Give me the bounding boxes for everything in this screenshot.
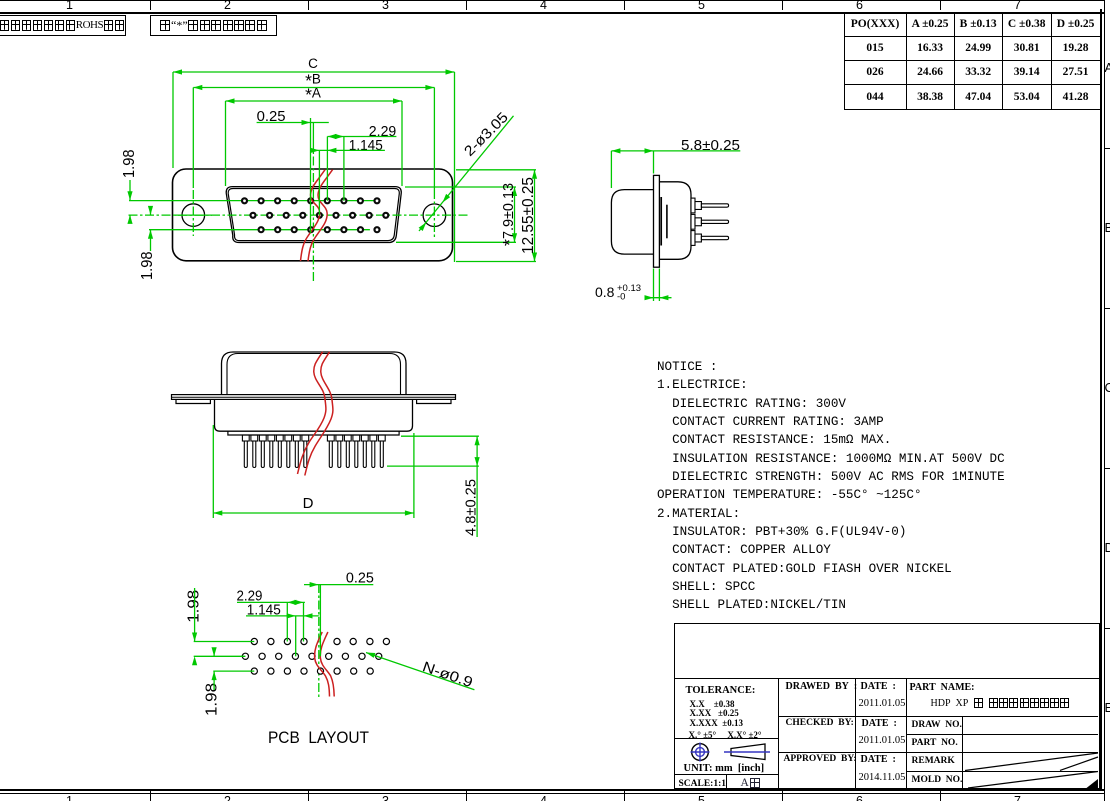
bottom frame line thin xyxy=(0,793,1104,794)
svg-text:1.145: 1.145 xyxy=(349,138,383,154)
right ruler ticks xyxy=(1104,148,1110,149)
DRAWED BY xyxy=(786,681,858,692)
top frame line thick xyxy=(0,12,1104,14)
dimension 7.9 xyxy=(405,186,516,188)
row line checked/approved xyxy=(778,752,1098,753)
front view right mounting hole xyxy=(423,204,446,227)
dimension 0.8 xyxy=(646,297,671,299)
front view D-shell outer xyxy=(226,187,401,243)
right ruler letters xyxy=(1105,60,1110,75)
DRAW NO. xyxy=(912,720,962,730)
break line pcb xyxy=(315,632,330,697)
top row extension line xyxy=(129,200,377,202)
svg-text:-0: -0 xyxy=(617,292,625,303)
side view insulator inner edge 1 xyxy=(660,197,662,246)
leader 2-diam3.05 xyxy=(419,116,514,231)
rear view flange tab left xyxy=(176,399,210,403)
dimension 5.8 xyxy=(611,150,740,152)
TOLERANCE text xyxy=(686,685,756,696)
projection symbol xyxy=(687,738,771,768)
top ruler ticks xyxy=(150,0,151,10)
side view insulator block xyxy=(659,182,691,259)
scale row line xyxy=(675,774,779,775)
svg-text:*7.9±0.13: *7.9±0.13 xyxy=(500,183,520,246)
dimension 4.8 xyxy=(401,435,479,437)
draw/part line xyxy=(906,734,1098,735)
svg-text:1.98: 1.98 xyxy=(204,683,221,716)
svg-text:1.98: 1.98 xyxy=(139,251,156,280)
side view insulator inner edge 2 xyxy=(666,205,668,239)
dimension 12.55 xyxy=(456,169,536,171)
vertical centerline front xyxy=(312,140,314,283)
front view left mounting hole xyxy=(182,204,205,227)
rear view insulator step xyxy=(228,431,399,435)
no col divider xyxy=(962,716,963,788)
part name value xyxy=(931,698,1070,709)
side view rear shell xyxy=(611,190,653,255)
UNIT text xyxy=(684,763,765,774)
side view pins xyxy=(691,198,729,245)
front view D-shell inner xyxy=(228,189,399,241)
A ban xyxy=(741,777,761,789)
front view contact holes grid xyxy=(242,198,388,232)
pcb leader N-0.9 xyxy=(366,653,474,690)
bottom ruler numbers xyxy=(66,794,73,801)
PART NAME xyxy=(910,682,975,693)
symbols divider xyxy=(675,738,779,739)
dimension A xyxy=(226,100,403,102)
left col right edge xyxy=(778,678,779,788)
svg-text:12.55±0.25: 12.55±0.25 xyxy=(520,177,537,254)
drawed col right edge xyxy=(855,678,856,788)
row line drawed/checked xyxy=(778,716,1098,717)
rear view solder pins xyxy=(242,435,385,468)
diagonal strikes xyxy=(962,752,1099,788)
inspection note box xyxy=(150,15,277,37)
ROHS note box xyxy=(0,15,126,37)
right hole centerline xyxy=(433,190,435,237)
svg-text:2-ø3.05: 2-ø3.05 xyxy=(462,110,512,160)
break line front xyxy=(301,170,326,261)
svg-text:4.8±0.25: 4.8±0.25 xyxy=(464,479,480,536)
rear view flange tab right xyxy=(417,399,451,403)
dimension C xyxy=(173,71,455,73)
scale divider xyxy=(726,774,727,788)
tolerance row top line xyxy=(675,678,1099,679)
dimension B xyxy=(193,87,434,89)
svg-text:5.8±0.25: 5.8±0.25 xyxy=(681,138,740,154)
rear view flange xyxy=(172,395,456,400)
pcb layout centerline xyxy=(318,584,320,697)
top ruler numbers xyxy=(66,0,73,12)
right frame line thin xyxy=(1104,0,1105,801)
right frame line thick xyxy=(1100,9,1102,790)
dimension D xyxy=(213,512,414,514)
svg-text:D: D xyxy=(303,495,314,512)
date col right edge xyxy=(906,678,907,788)
bottom ruler ticks xyxy=(150,790,151,801)
svg-text:PCB LAYOUT: PCB LAYOUT xyxy=(268,729,369,747)
pcb layout holes xyxy=(242,638,389,674)
rear view hood outer xyxy=(222,352,407,395)
DATE cells xyxy=(861,681,896,692)
front view body outline xyxy=(173,169,453,261)
SCALE text xyxy=(679,779,727,789)
horizontal centerline xyxy=(129,214,471,216)
svg-text:*A: *A xyxy=(305,85,321,105)
remark/mold line xyxy=(906,771,1098,772)
bottom frame line thick xyxy=(0,789,1104,791)
left hole centerline xyxy=(192,190,194,236)
side view flange xyxy=(654,175,660,267)
rear view body xyxy=(215,399,413,431)
break line rear xyxy=(298,352,326,474)
svg-text:C: C xyxy=(308,56,318,71)
top frame line thin xyxy=(0,0,1104,1)
bottom row extension line xyxy=(149,229,370,231)
svg-text:0.8: 0.8 xyxy=(595,284,615,300)
svg-text:N-ø0.9: N-ø0.9 xyxy=(420,659,474,691)
svg-text:1.98: 1.98 xyxy=(121,149,138,178)
rear view hood inner xyxy=(227,354,401,395)
